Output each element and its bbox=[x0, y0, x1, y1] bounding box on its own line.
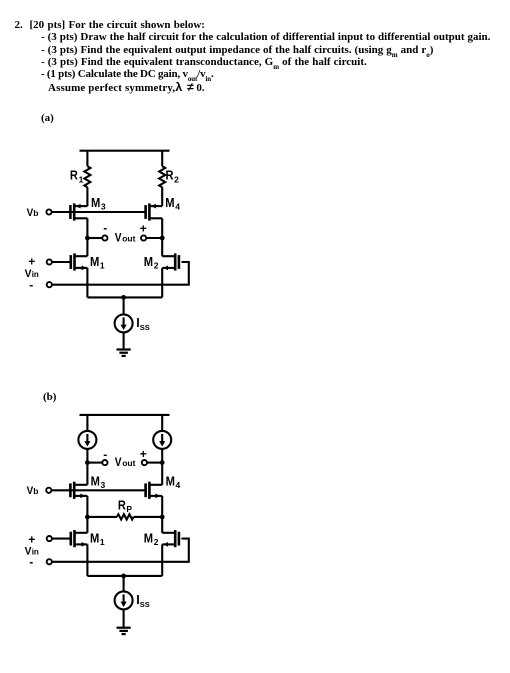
svg-text:M: M bbox=[90, 532, 99, 546]
svg-text:-: - bbox=[103, 447, 107, 461]
wire: common source line (b) bbox=[87, 575, 162, 577]
wire: Rp left lead (b) bbox=[87, 516, 117, 518]
wire: R1 to M3 drain (a) bbox=[86, 187, 88, 206]
node Rp left junction (b) bbox=[85, 515, 90, 520]
node Vout+ terminal (b) bbox=[142, 460, 147, 465]
wire: Vout+ stub (b) bbox=[147, 462, 162, 464]
resistor Rp bbox=[117, 514, 134, 519]
node Vout- junction (b) bbox=[85, 460, 90, 465]
svg-text:2: 2 bbox=[154, 261, 159, 271]
svg-text:+: + bbox=[140, 222, 147, 236]
wire: Vin+ to M1 gate (b) bbox=[52, 538, 70, 540]
wire: Rp right lead (b) bbox=[134, 516, 163, 518]
wire: left current source to Vout- node (b) bbox=[86, 449, 88, 463]
svg-text:R: R bbox=[166, 168, 174, 182]
node Vout- junction (a) bbox=[85, 236, 90, 241]
current source I2 (b) bbox=[153, 431, 171, 449]
wire: tail to Iss (b) bbox=[123, 576, 125, 592]
node Vout- terminal (b) bbox=[102, 460, 107, 465]
svg-text:b: b bbox=[33, 486, 38, 496]
resistor R2 bbox=[159, 166, 165, 187]
transistor M4 bbox=[146, 196, 181, 221]
svg-text:1: 1 bbox=[100, 537, 105, 547]
transistor M4 (b) bbox=[146, 474, 181, 499]
problem statement text bbox=[15, 20, 205, 31]
wire: rail to left current source (b) bbox=[86, 415, 88, 431]
wire: Vout- node down to M3 drain (b) bbox=[86, 463, 88, 485]
wire: M2 source down (b) bbox=[161, 544, 163, 576]
wire: Vout+ stub (a) bbox=[146, 237, 162, 239]
wire: M2 source down (a) bbox=[161, 268, 163, 298]
svg-text:1: 1 bbox=[79, 174, 84, 184]
node tail junction (a) bbox=[121, 295, 126, 300]
wire: top supply rail (b) bbox=[80, 414, 170, 416]
node Vout+ junction (a) bbox=[160, 236, 165, 241]
wire: Vin- line to M2 gate loop (a) bbox=[52, 262, 189, 285]
svg-text:SS: SS bbox=[140, 323, 150, 332]
node tail junction (b) bbox=[121, 574, 126, 579]
transistor M2 (b) bbox=[144, 530, 179, 547]
wire: Vin+ to M1 gate (a) bbox=[52, 261, 70, 263]
svg-text:1: 1 bbox=[100, 261, 105, 271]
node Vin- terminal (b) bbox=[47, 559, 52, 564]
svg-text:V: V bbox=[115, 230, 122, 244]
wire: Vin- line to M2 gate loop (b) bbox=[52, 539, 189, 562]
wire: Vout+ node down to M4 drain (b) bbox=[161, 463, 163, 485]
svg-text:M: M bbox=[91, 196, 100, 210]
wire: M1 source down (a) bbox=[86, 268, 88, 298]
svg-text:M: M bbox=[166, 474, 175, 488]
svg-text:R: R bbox=[118, 499, 126, 513]
svg-text:+: + bbox=[28, 533, 35, 547]
svg-text:P: P bbox=[126, 504, 132, 514]
node Vb terminal (a) bbox=[46, 209, 51, 214]
wire: M3 source down to Vout- node (a) bbox=[86, 218, 88, 238]
wire: Vout- stub (a) bbox=[87, 237, 102, 239]
svg-text:+: + bbox=[28, 255, 35, 269]
svg-text:-: - bbox=[29, 278, 33, 292]
svg-text:2: 2 bbox=[174, 174, 179, 184]
wire: Vb gate line to M3 and M4 (a) bbox=[52, 211, 147, 213]
svg-text:4: 4 bbox=[175, 202, 180, 212]
svg-text:4: 4 bbox=[176, 480, 181, 490]
wire: M1 source down (b) bbox=[86, 544, 88, 576]
node Vout+ terminal (a) bbox=[141, 235, 146, 240]
ground (a) bbox=[117, 350, 131, 356]
node Vin- terminal (a) bbox=[47, 282, 52, 287]
svg-text:M: M bbox=[90, 255, 99, 269]
transistor M3 bbox=[70, 196, 106, 221]
current source Iss (b) bbox=[115, 591, 150, 609]
wire: Vout+ node down to M2 drain (a) bbox=[161, 238, 163, 256]
wire: Vout- node down to M1 drain (a) bbox=[86, 238, 88, 256]
ground (b) bbox=[117, 628, 131, 634]
wire: M4 source down to Rp node (b) bbox=[161, 496, 163, 517]
svg-text:out: out bbox=[122, 458, 135, 468]
wire: Rp node down to M2 drain (b) bbox=[161, 517, 163, 533]
node Vout+ junction (b) bbox=[160, 460, 165, 465]
svg-text:2: 2 bbox=[154, 537, 159, 547]
transistor M3 (b) bbox=[70, 474, 105, 499]
wire: rail to R2 (a) bbox=[161, 151, 163, 167]
svg-text:V: V bbox=[115, 455, 122, 469]
current source I1 (b) bbox=[78, 431, 96, 449]
resistor R1 bbox=[84, 166, 90, 187]
svg-text:M: M bbox=[165, 196, 174, 210]
wire: right current source to Vout+ node (b) bbox=[161, 449, 163, 463]
svg-text:b: b bbox=[33, 208, 38, 218]
svg-text:3: 3 bbox=[101, 202, 106, 212]
wire: M3 source down to Rp node (b) bbox=[86, 496, 88, 517]
svg-text:R: R bbox=[70, 168, 78, 182]
svg-text:out: out bbox=[122, 233, 135, 243]
wire: Vb gate line to M3 and M4 (b) bbox=[52, 489, 147, 491]
wire: rail to R1 (a) bbox=[86, 151, 88, 167]
svg-text:M: M bbox=[144, 255, 153, 269]
node Vb terminal (b) bbox=[46, 488, 51, 493]
node Vin+ terminal (a) bbox=[47, 259, 52, 264]
svg-text:M: M bbox=[144, 532, 153, 546]
svg-text:M: M bbox=[91, 474, 100, 488]
transistor M1 bbox=[71, 253, 105, 270]
wire: Iss to ground (a) bbox=[123, 332, 125, 348]
transistor M2 bbox=[144, 253, 179, 270]
node Vin+ terminal (b) bbox=[47, 536, 52, 541]
wire: common source line (a) bbox=[87, 296, 162, 298]
transistor M1 (b) bbox=[71, 530, 105, 547]
svg-text:+: + bbox=[140, 447, 147, 461]
current source Iss (a) bbox=[115, 314, 150, 332]
wire: tail to Iss (a) bbox=[123, 297, 125, 314]
node Vout- terminal (a) bbox=[102, 235, 107, 240]
wire: M4 source down to Vout+ node (a) bbox=[161, 218, 163, 238]
node Rp right junction (b) bbox=[160, 515, 165, 520]
wire: R2 to M4 drain (a) bbox=[161, 187, 163, 206]
svg-text:-: - bbox=[29, 555, 33, 569]
wire: Rp node down to M1 drain (b) bbox=[86, 517, 88, 533]
svg-text:SS: SS bbox=[140, 600, 150, 609]
wire: Iss to ground (b) bbox=[123, 609, 125, 626]
svg-text:-: - bbox=[103, 221, 107, 235]
svg-text:3: 3 bbox=[101, 480, 106, 490]
wire: Vout- stub (b) bbox=[87, 462, 102, 464]
wire: rail to right current source (b) bbox=[161, 415, 163, 431]
wire: top supply rail (a) bbox=[80, 150, 170, 152]
